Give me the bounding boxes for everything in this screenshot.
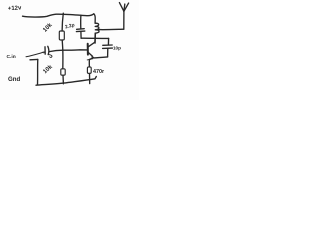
svg-text:+12v: +12v	[8, 5, 23, 12]
svg-text:2.2p: 2.2p	[65, 22, 76, 30]
svg-text:10p: 10p	[113, 46, 121, 51]
svg-text:Gnd: Gnd	[8, 76, 20, 83]
svg-text:C.in: C.in	[7, 54, 16, 60]
svg-text:470r: 470r	[93, 69, 105, 75]
svg-text:10k: 10k	[42, 22, 54, 34]
svg-text:10k: 10k	[42, 64, 54, 76]
